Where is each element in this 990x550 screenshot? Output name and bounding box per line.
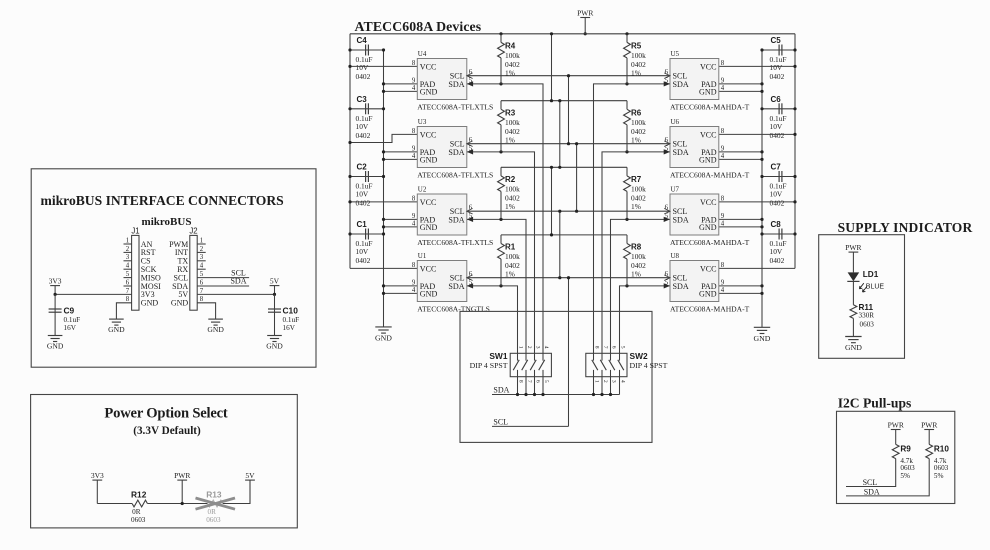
- resistor R5 100k: [624, 34, 646, 84]
- svg-text:SCL: SCL: [493, 417, 508, 426]
- svg-text:8: 8: [412, 60, 416, 67]
- wire: U4 PAD pin wire: [384, 83, 418, 85]
- IC U8 ATECC608A-MAHDA-T: [664, 252, 750, 313]
- svg-text:U4: U4: [418, 50, 427, 58]
- svg-text:5%: 5%: [900, 472, 910, 480]
- svg-text:SDA: SDA: [230, 277, 246, 286]
- svg-text:ATECC608A-TFLXTLS: ATECC608A-TFLXTLS: [417, 170, 493, 179]
- svg-text:R10: R10: [934, 445, 949, 454]
- svg-text:SDA: SDA: [864, 488, 880, 497]
- svg-text:PWR: PWR: [845, 243, 861, 252]
- ground symbol (J2): [207, 319, 224, 334]
- svg-text:1%: 1%: [505, 68, 515, 77]
- svg-text:GND: GND: [420, 289, 438, 298]
- wire: U5 VCC: [719, 65, 795, 67]
- svg-text:0603: 0603: [934, 464, 949, 472]
- svg-text:10V: 10V: [770, 190, 783, 199]
- wire: LED cathode to R11: [852, 281, 854, 304]
- svg-text:4: 4: [412, 153, 416, 160]
- junction dot R6 bottom on U6 SDA: [625, 150, 628, 153]
- svg-text:U1: U1: [418, 252, 427, 260]
- svg-text:C6: C6: [771, 95, 782, 104]
- wire: C10 vertical: [274, 294, 276, 335]
- svg-text:4: 4: [412, 85, 416, 92]
- connector J2 (mikroBUS): [169, 227, 206, 311]
- svg-text:ATECC608A-MAHDA-T: ATECC608A-MAHDA-T: [670, 102, 750, 111]
- wire: C7 cap row wire (right): [762, 176, 795, 178]
- svg-text:10V: 10V: [356, 122, 369, 131]
- svg-text:1%: 1%: [505, 202, 515, 211]
- svg-text:U2: U2: [418, 186, 427, 194]
- svg-text:R6: R6: [631, 108, 642, 117]
- svg-text:SDA: SDA: [673, 215, 689, 224]
- junction dot 3V3/C9: [54, 293, 57, 296]
- wire: U4 SDA to SW1 pin: [467, 84, 543, 353]
- wire: U3 GND pin wire: [384, 158, 418, 160]
- resistor R8 100k: [624, 235, 646, 286]
- wire: left PWR rail vertical: [349, 34, 351, 269]
- svg-text:GND: GND: [207, 325, 224, 334]
- svg-text:GND: GND: [420, 223, 438, 232]
- wire: R13 to 5V: [223, 480, 250, 503]
- svg-text:8: 8: [412, 195, 416, 202]
- junction dots on PWR rails and chain: [499, 32, 628, 236]
- svg-text:0603: 0603: [860, 321, 875, 329]
- ground symbol (right column): [754, 327, 771, 343]
- svg-text:ATECC608A-MAHDA-T: ATECC608A-MAHDA-T: [670, 238, 750, 247]
- svg-text:100k: 100k: [505, 118, 520, 127]
- svg-text:GND: GND: [699, 87, 717, 96]
- capacitor C9: [49, 306, 80, 333]
- wire: U8 VCC: [719, 267, 795, 269]
- capacitor C7: [770, 163, 787, 208]
- ground symbol (C9): [47, 336, 64, 351]
- svg-text:VCC: VCC: [700, 264, 717, 273]
- svg-text:4: 4: [721, 220, 725, 227]
- wire: U5 SDA to SW2 pin: [594, 84, 671, 353]
- svg-text:ATECC608A-MAHDA-T: ATECC608A-MAHDA-T: [670, 304, 750, 313]
- wire: left GND vertical: [383, 50, 385, 327]
- svg-text:SCL: SCL: [863, 478, 878, 487]
- I2C Pull-ups box: [837, 411, 955, 503]
- svg-text:100k: 100k: [631, 51, 646, 60]
- svg-text:C2: C2: [357, 163, 368, 172]
- svg-text:GND: GND: [47, 341, 64, 350]
- svg-text:5: 5: [126, 271, 130, 278]
- wire: SW2 bottom pin 1 to SDA line: [593, 377, 595, 395]
- svg-text:5%: 5%: [934, 472, 944, 480]
- svg-text:SDA: SDA: [448, 80, 464, 89]
- svg-text:3V3: 3V3: [49, 276, 62, 285]
- svg-text:R12: R12: [131, 490, 147, 500]
- svg-text:4: 4: [721, 287, 725, 294]
- svg-text:GND: GND: [420, 155, 438, 164]
- wire: U4 GND pin wire: [384, 90, 418, 92]
- svg-text:GND: GND: [171, 299, 189, 308]
- svg-text:R9: R9: [900, 445, 911, 454]
- junction dot R8 bottom on U8 SDA: [625, 284, 628, 287]
- svg-text:16V: 16V: [283, 324, 296, 332]
- svg-text:5V: 5V: [270, 276, 280, 285]
- svg-text:VCC: VCC: [420, 130, 437, 139]
- node SDA: common SDA line: [492, 394, 620, 396]
- svg-text:4: 4: [412, 220, 416, 227]
- junction dot PWR (power select): [181, 502, 184, 505]
- svg-text:DIP 4 SPST: DIP 4 SPST: [470, 361, 508, 370]
- junction dot R7 bottom on U7 SDA: [625, 218, 628, 221]
- junction dot 5V/C10: [273, 293, 276, 296]
- svg-text:5V: 5V: [245, 471, 255, 480]
- svg-text:10V: 10V: [770, 247, 783, 256]
- wire: U2 SDA to SW1 pin: [467, 219, 526, 353]
- svg-text:SDA: SDA: [673, 282, 689, 291]
- svg-text:J2: J2: [189, 227, 197, 236]
- svg-text:330R: 330R: [859, 311, 875, 319]
- resistor R3 100k: [498, 101, 520, 152]
- svg-text:R13: R13: [206, 490, 222, 500]
- wire: 3V3 to J1 pin 7: [55, 293, 132, 295]
- wire: row4 SCL horizontal (U1 to U8): [467, 277, 670, 279]
- wire: U7 VCC: [719, 201, 795, 203]
- svg-text:GND: GND: [699, 155, 717, 164]
- svg-text:0.1uF: 0.1uF: [64, 316, 81, 324]
- svg-text:8: 8: [412, 262, 416, 269]
- svg-text:16V: 16V: [64, 324, 77, 332]
- wire: SW2 bottom pin 2 to SDA line: [601, 377, 603, 395]
- svg-text:GND: GND: [266, 341, 283, 350]
- wire: U8 GND pin wire: [719, 292, 762, 294]
- resistor R2 100k: [498, 167, 520, 219]
- svg-text:8: 8: [518, 380, 524, 383]
- wire: SW2 bottom pin 4 to SDA line: [619, 377, 621, 395]
- wire: U6 SDA to SW2 pin: [602, 152, 670, 353]
- svg-text:0603: 0603: [131, 516, 146, 524]
- svg-text:6: 6: [535, 380, 541, 383]
- svg-text:4: 4: [126, 263, 130, 270]
- svg-text:10V: 10V: [770, 63, 783, 72]
- svg-text:6: 6: [611, 346, 617, 349]
- svg-text:1: 1: [518, 346, 524, 349]
- svg-text:1: 1: [126, 237, 129, 244]
- svg-text:J1: J1: [131, 227, 139, 236]
- wire: U2 GND pin wire: [384, 226, 418, 228]
- svg-text:0603: 0603: [900, 464, 915, 472]
- svg-text:3: 3: [200, 254, 204, 261]
- svg-text:100k: 100k: [631, 118, 646, 127]
- wire: SCL chain segment row3 to row4: [559, 211, 561, 278]
- svg-text:SDA: SDA: [493, 386, 509, 395]
- wire: U1 VCC: [350, 267, 417, 269]
- svg-text:U6: U6: [671, 118, 680, 126]
- svg-text:SDA: SDA: [673, 148, 689, 157]
- svg-text:PWR: PWR: [577, 8, 593, 17]
- svg-text:2: 2: [602, 380, 608, 383]
- wire: SDA to R10: [846, 459, 929, 496]
- svg-text:1: 1: [200, 237, 203, 244]
- svg-text:C10: C10: [283, 306, 299, 316]
- node SCL: common SCL line: [492, 425, 569, 427]
- wire: C8 cap row wire (right): [762, 233, 795, 235]
- IC U3 ATECC608A-TFLXTLS: [412, 118, 493, 179]
- junction dot R5 bottom on U5 SDA: [625, 82, 628, 85]
- svg-text:8: 8: [126, 296, 130, 303]
- wire: row2 SCL horizontal (U3 to U6): [467, 143, 670, 145]
- svg-text:6: 6: [126, 279, 130, 286]
- svg-text:R2: R2: [505, 175, 516, 184]
- svg-text:SUPPLY INDICATOR: SUPPLY INDICATOR: [838, 220, 973, 235]
- ground symbol (supply indicator): [845, 337, 862, 353]
- svg-text:VCC: VCC: [700, 198, 717, 207]
- svg-text:9: 9: [412, 213, 416, 220]
- svg-text:C3: C3: [357, 95, 368, 104]
- svg-text:C1: C1: [357, 220, 368, 229]
- svg-text:100k: 100k: [631, 184, 646, 193]
- wire: row4 resistor-top PWR wire: [501, 234, 627, 236]
- svg-text:I2C Pull-ups: I2C Pull-ups: [838, 396, 912, 411]
- wire: U6 PAD pin wire: [719, 151, 762, 153]
- wire: U2 VCC: [350, 201, 417, 203]
- svg-text:LD1: LD1: [863, 270, 879, 279]
- wire: U4 VCC: [350, 65, 417, 67]
- svg-text:SW2: SW2: [630, 351, 648, 361]
- svg-text:1%: 1%: [505, 270, 515, 279]
- connector J1 (mikroBUS): [124, 227, 162, 311]
- junction dot R4 bottom on U4 SDA: [499, 82, 502, 85]
- junction dot PWR stub on top rail: [584, 32, 587, 35]
- svg-text:(3.3V Default): (3.3V Default): [133, 425, 201, 437]
- svg-text:ATECC608A-MAHDA-T: ATECC608A-MAHDA-T: [670, 170, 750, 179]
- IC U6 ATECC608A-MAHDA-T: [664, 118, 750, 179]
- svg-text:VCC: VCC: [700, 62, 717, 71]
- svg-text:100k: 100k: [631, 252, 646, 261]
- svg-text:0.1uF: 0.1uF: [283, 316, 300, 324]
- svg-text:100k: 100k: [505, 51, 520, 60]
- svg-text:SDA: SDA: [448, 215, 464, 224]
- resistor R1 100k: [498, 235, 520, 286]
- resistor R4 100k: [498, 34, 520, 84]
- wire: U5 PAD pin wire: [719, 83, 762, 85]
- svg-text:3: 3: [611, 380, 617, 383]
- svg-text:C8: C8: [771, 220, 782, 229]
- resistor R6 100k: [624, 101, 646, 152]
- capacitor C4: [356, 36, 373, 81]
- svg-text:R7: R7: [631, 175, 642, 184]
- svg-text:0402: 0402: [356, 256, 371, 265]
- svg-text:SDA: SDA: [448, 282, 464, 291]
- svg-text:R5: R5: [631, 41, 642, 50]
- svg-text:GND: GND: [845, 343, 862, 352]
- svg-text:1%: 1%: [631, 68, 641, 77]
- svg-text:DIP 4 SPST: DIP 4 SPST: [630, 361, 668, 370]
- SUPPLY INDICATOR box: [819, 235, 905, 359]
- wire: SCL to R9: [846, 459, 896, 487]
- wire: U1 SDA to SW1 pin: [467, 286, 518, 353]
- svg-text:0R: 0R: [132, 508, 141, 516]
- svg-text:0402: 0402: [356, 199, 371, 208]
- svg-text:mikroBUS: mikroBUS: [142, 216, 192, 228]
- svg-text:C5: C5: [771, 36, 782, 45]
- junction dot R3 bottom on U3 SDA: [499, 150, 502, 153]
- svg-text:1%: 1%: [505, 135, 515, 144]
- wire: PWR chain segment row3 to row4: [551, 167, 553, 235]
- wire: SCL chain segment row4 to SCL label line: [568, 278, 570, 427]
- svg-text:8: 8: [721, 60, 725, 67]
- mikroBUS INTERFACE CONNECTORS box: [31, 169, 316, 367]
- svg-text:8: 8: [721, 128, 725, 135]
- wire: SW1 bottom pin 6 to SDA line: [534, 377, 536, 395]
- wire: PWR chain segment rail to row2: [551, 34, 553, 101]
- ground symbol (left column): [375, 327, 392, 343]
- svg-text:5: 5: [620, 346, 626, 349]
- wire: U1 GND pin wire: [384, 292, 418, 294]
- DIP switch SW1: [470, 346, 552, 383]
- svg-text:1%: 1%: [631, 202, 641, 211]
- ground symbol (C10): [266, 336, 283, 351]
- svg-text:9: 9: [721, 145, 725, 152]
- svg-text:U8: U8: [671, 252, 680, 260]
- capacitor C1: [356, 220, 373, 265]
- DIP switch SW2: [586, 346, 668, 383]
- resistor R12 0R: [131, 490, 147, 525]
- svg-text:7: 7: [526, 380, 532, 383]
- svg-text:5: 5: [543, 380, 549, 383]
- svg-text:100k: 100k: [505, 252, 520, 261]
- wire: PWR chain segment row2 to row3: [559, 101, 561, 168]
- svg-text:1: 1: [594, 380, 600, 383]
- svg-text:PWR: PWR: [921, 420, 937, 429]
- svg-text:9: 9: [412, 77, 416, 84]
- wire: R12 to PWR to R13: [147, 503, 207, 505]
- svg-text:10V: 10V: [356, 247, 369, 256]
- wire: row3 resistor-top PWR wire: [501, 166, 627, 168]
- capacitor C8: [770, 220, 787, 265]
- svg-text:2: 2: [526, 346, 532, 349]
- svg-text:GND: GND: [375, 333, 392, 342]
- wire: 3V3 to R12: [97, 503, 132, 505]
- IC U4 ATECC608A-TFLXTLS: [412, 50, 493, 111]
- wire: U5 GND pin wire: [719, 90, 762, 92]
- wire: U8 SDA to SW2 pin: [620, 286, 671, 353]
- wire: SW1 bottom pin 7 to SDA line: [525, 377, 527, 395]
- svg-text:8: 8: [721, 262, 725, 269]
- svg-text:4: 4: [543, 346, 549, 349]
- capacitor C10: [268, 306, 299, 333]
- no-populate cross over R13: [196, 498, 236, 509]
- svg-text:10V: 10V: [356, 190, 369, 199]
- svg-text:0402: 0402: [770, 72, 785, 81]
- wire: SCL chain segment row2 to row3: [576, 144, 578, 212]
- svg-text:U3: U3: [418, 118, 427, 126]
- resistor R13 0R (not populated): [206, 490, 223, 525]
- svg-text:0402: 0402: [770, 199, 785, 208]
- svg-text:GND: GND: [699, 223, 717, 232]
- wire: U7 PAD pin wire: [719, 218, 762, 220]
- svg-text:ATECC608A Devices: ATECC608A Devices: [355, 19, 482, 34]
- svg-text:4: 4: [721, 85, 725, 92]
- svg-text:VCC: VCC: [420, 264, 437, 273]
- svg-text:mikroBUS INTERFACE CONNECTORS: mikroBUS INTERFACE CONNECTORS: [41, 193, 284, 208]
- svg-text:9: 9: [412, 145, 416, 152]
- wire: J2 pin 8 to ground: [197, 303, 215, 319]
- capacitor C5: [770, 36, 787, 81]
- svg-text:3: 3: [126, 254, 130, 261]
- wire: SW2 bottom pin 3 to SDA line: [610, 377, 612, 395]
- svg-text:U5: U5: [671, 50, 680, 58]
- IC U1 ATECC608A-TNGTLS: [412, 252, 490, 313]
- wire: C3 cap row wire (left): [350, 108, 384, 110]
- svg-text:R3: R3: [505, 108, 516, 117]
- IC U2 ATECC608A-TFLXTLS: [412, 186, 493, 247]
- wire: right PWR rail vertical: [794, 34, 796, 269]
- svg-text:7: 7: [126, 288, 130, 295]
- svg-text:2: 2: [126, 246, 130, 253]
- svg-text:GND: GND: [420, 87, 438, 96]
- svg-text:BLUE: BLUE: [866, 283, 885, 290]
- capacitor C3: [356, 95, 373, 140]
- svg-text:PWR: PWR: [888, 420, 904, 429]
- svg-text:GND: GND: [108, 325, 125, 334]
- svg-text:U7: U7: [671, 186, 680, 194]
- svg-text:100k: 100k: [505, 184, 520, 193]
- junction dots on SCL bus: [558, 74, 578, 279]
- wire: SCL chain segment row1 to row2: [568, 76, 570, 144]
- svg-text:C4: C4: [357, 36, 368, 45]
- wire: U2 PAD pin wire: [384, 218, 418, 220]
- svg-text:R1: R1: [505, 243, 516, 252]
- LED LD1 BLUE: [847, 270, 884, 292]
- wire: R11 to ground: [852, 318, 854, 336]
- svg-text:ATECC608A-TFLXTLS: ATECC608A-TFLXTLS: [417, 238, 493, 247]
- svg-text:5: 5: [200, 271, 204, 278]
- wire: PWR top rail: [350, 33, 795, 35]
- svg-text:SW1: SW1: [489, 351, 507, 361]
- wire: row1 SCL horizontal (U4 to U5): [467, 75, 670, 77]
- resistor R10 4.7k: [926, 444, 950, 480]
- svg-text:0402: 0402: [770, 131, 785, 140]
- capacitor C6: [770, 95, 787, 140]
- wire: U6 VCC: [719, 133, 795, 135]
- svg-text:Power Option Select: Power Option Select: [104, 405, 228, 421]
- svg-text:3: 3: [535, 346, 541, 349]
- svg-text:8: 8: [412, 128, 416, 135]
- IC U7 ATECC608A-MAHDA-T: [664, 186, 750, 247]
- svg-text:SDA: SDA: [448, 148, 464, 157]
- svg-text:1%: 1%: [631, 270, 641, 279]
- svg-text:9: 9: [721, 279, 725, 286]
- resistor R7 100k: [624, 167, 646, 219]
- svg-text:0R: 0R: [208, 508, 217, 516]
- wire: J2 SDA stub: [197, 285, 249, 287]
- wire: SW1 bottom pin 5 to SDA line: [542, 377, 544, 395]
- wire: U3 PAD pin wire: [384, 151, 418, 153]
- junction dot R1 bottom on U1 SDA: [499, 284, 502, 287]
- wire: U8 PAD pin wire: [719, 285, 762, 287]
- svg-text:R8: R8: [631, 243, 642, 252]
- resistor R9 4.7k: [892, 444, 915, 480]
- svg-text:C7: C7: [771, 163, 782, 172]
- wire: U7 SDA to SW2 pin: [611, 219, 671, 353]
- svg-text:9: 9: [721, 213, 725, 220]
- svg-text:2: 2: [200, 246, 204, 253]
- svg-text:PWR: PWR: [174, 471, 190, 480]
- svg-text:4: 4: [200, 263, 204, 270]
- junction dots on SDA line: [516, 393, 612, 396]
- wire: C5 cap row wire (right): [762, 49, 795, 51]
- svg-text:0603: 0603: [206, 516, 221, 524]
- wire: row2 resistor-top PWR wire: [501, 100, 627, 102]
- wire: row3 SCL horizontal (U2 to U7): [467, 210, 670, 212]
- svg-text:6: 6: [200, 279, 204, 286]
